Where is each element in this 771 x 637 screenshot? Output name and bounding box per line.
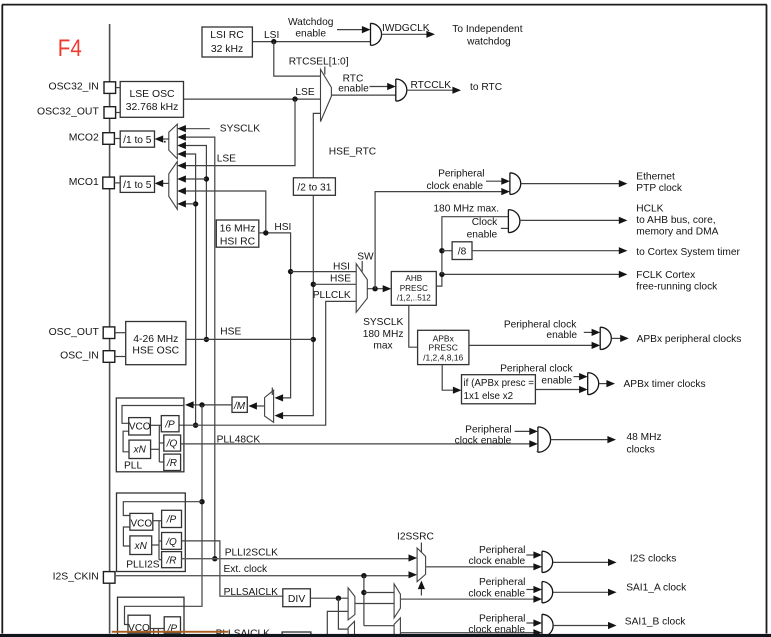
divider /2 to 31 box	[293, 178, 335, 196]
wire RTCSEL mux output to RTC gate	[331, 94, 395, 96]
divider /8 box	[452, 242, 472, 260]
pin MCO1	[103, 177, 115, 189]
mux I2SSRC	[417, 548, 426, 582]
prescaler AHB PRESC box	[391, 272, 436, 306]
divider PLL /P box	[161, 416, 179, 432]
svg-text:OSC_IN: OSC_IN	[60, 351, 99, 362]
wire APBx PRESC down to if box	[442, 365, 455, 391]
svg-text:/1 to 5: /1 to 5	[123, 180, 152, 191]
wire Ext into SAI B mux	[364, 625, 394, 627]
pin I2S_CKIN	[103, 572, 115, 584]
svg-text:LSE: LSE	[217, 154, 236, 165]
wire SAI1_A clock row to gate	[400, 598, 535, 600]
svg-text:180 MHz: 180 MHz	[363, 329, 404, 340]
svg-text:32 kHz: 32 kHz	[211, 44, 243, 55]
wire PLLI2S xN feedback loop	[123, 527, 129, 546]
svg-text:LSE OSC: LSE OSC	[129, 89, 175, 100]
mux SAI1_A pre-select mux	[348, 588, 355, 620]
wire HSI into MCO1 mux	[179, 191, 266, 233]
node PLLCLK tap junction	[193, 423, 198, 428]
svg-text:/P: /P	[164, 419, 175, 430]
wire pin stub MCO2	[114, 138, 120, 140]
svg-text:Peripheral: Peripheral	[438, 168, 484, 179]
svg-text:clock enable: clock enable	[426, 181, 483, 192]
svg-text:VCO: VCO	[129, 422, 151, 433]
pll PLL VCO box	[129, 418, 151, 435]
svg-text:clock enable: clock enable	[468, 589, 525, 600]
wire pin stub OSC_OUT	[115, 332, 126, 334]
svg-text:PTP clock: PTP clock	[636, 183, 683, 194]
pll PLLI2S block outer box	[117, 493, 186, 572]
svg-text:xN: xN	[133, 444, 147, 455]
svg-text:HSE: HSE	[330, 273, 351, 284]
wire SAI premux A output	[355, 603, 394, 605]
svg-text:/1 to 5: /1 to 5	[123, 135, 152, 146]
wire SYSCLK output of SW mux into AHB PRESC	[367, 288, 385, 290]
svg-text:to AHB bus, core,: to AHB bus, core,	[636, 215, 715, 226]
wire /8 output to Cortex system timer	[472, 250, 620, 252]
svg-text:HSI RC: HSI RC	[220, 236, 256, 247]
svg-text:/1,2,4,8,16: /1,2,4,8,16	[423, 352, 463, 362]
svg-text:32.768 kHz: 32.768 kHz	[126, 102, 179, 113]
svg-text:Ext. clock: Ext. clock	[224, 564, 268, 575]
svg-text:I2SSRC: I2SSRC	[397, 531, 434, 542]
artifact dot near MCO2 mux	[164, 141, 166, 143]
gate U_48M clock gate	[538, 427, 551, 452]
pin OSC_IN	[103, 351, 115, 363]
svg-text:To Independent: To Independent	[452, 24, 522, 35]
svg-text:enable: enable	[541, 376, 572, 387]
wire I2SSRC output to I2S gate	[426, 566, 536, 568]
svg-text:PLL48CK: PLL48CK	[217, 434, 261, 445]
gate U_ETH clock gate	[510, 173, 521, 195]
wire SW select stub	[361, 261, 363, 272]
wire PLLSAI internal rail	[150, 628, 164, 630]
pin MCO2	[103, 133, 115, 145]
wire enable arrow into APBx peripheral gate	[584, 331, 594, 333]
svg-text:PLLCLK: PLLCLK	[313, 290, 351, 301]
pll PLLSAI VCO box	[128, 615, 150, 633]
svg-text:HSI: HSI	[333, 261, 350, 272]
svg-text:max: max	[373, 340, 392, 351]
mux PLL source mux	[265, 390, 274, 422]
wire HSE main line	[186, 338, 313, 340]
wire SAI1_A clock output	[553, 591, 610, 593]
wire pin stub MCO1	[114, 182, 120, 184]
wire PLLI2S VCO output rail	[153, 520, 163, 522]
wire HSI from HSI RC box down to PLL source mux	[259, 233, 291, 398]
wire from PLLSAI below into SAI premux	[327, 611, 348, 637]
wire PLLCLK into MCO1 mux	[179, 203, 196, 205]
gate U_I2S clock gate	[542, 551, 553, 572]
svg-text:Peripheral clock: Peripheral clock	[500, 364, 573, 375]
wire HSE vertical from /2 to 31 down to PLL source mux	[276, 195, 313, 415]
gate U_APBT clock gate	[588, 373, 599, 395]
node HSE to SW junction	[311, 282, 316, 287]
mux MCO2 source mux	[169, 124, 178, 159]
wire I2SSRC select stub	[420, 543, 422, 553]
svg-text:OSC_OUT: OSC_OUT	[49, 327, 100, 338]
svg-text:Watchdog: Watchdog	[288, 17, 334, 28]
wire MCO1 mux output arrow	[160, 182, 169, 184]
svg-text:SAI1_A clock: SAI1_A clock	[626, 582, 687, 593]
pll PLL xN box	[129, 440, 151, 458]
svg-text:enable: enable	[467, 229, 498, 240]
wire enable arrow into I2S gate	[526, 554, 534, 556]
pll PLLI2S xN box	[130, 536, 152, 555]
svg-text:/8: /8	[458, 247, 467, 258]
wire enable arrow into SAI1_A gate	[526, 589, 534, 591]
wire into /8 divider	[442, 250, 452, 252]
wire SYSCLK stub into MCO2 mux	[179, 128, 210, 130]
svg-text:Ethernet: Ethernet	[636, 171, 675, 182]
svg-text:enable: enable	[546, 330, 577, 341]
svg-text:Peripheral clock: Peripheral clock	[504, 320, 577, 331]
wire PLLI2SCLK from MCO2 mux down to PLLI2S /R output	[179, 137, 215, 559]
wire LSE branch down to MCO1 mux	[179, 99, 296, 166]
svg-text:clocks: clocks	[627, 445, 655, 456]
node PLLI2SCLK tap junction	[212, 556, 217, 561]
divider DIV box	[283, 589, 311, 607]
gate U_RTC clock gate	[396, 79, 407, 101]
wire enable arrow into 48 MHz gate	[515, 430, 532, 432]
wire HSE into MCO1 mux	[179, 178, 207, 180]
svg-text:/2 to 31: /2 to 31	[297, 183, 331, 194]
svg-text:PRESC: PRESC	[400, 284, 428, 293]
divider /1 to 5 box MCO2	[120, 131, 154, 147]
svg-text:SW: SW	[357, 251, 374, 262]
svg-text:xN: xN	[134, 541, 148, 552]
mux SW system clock mux	[356, 264, 367, 313]
svg-text:PLLI2SCLK: PLLI2SCLK	[225, 547, 278, 558]
wire DIV branch down to SAI B premux	[338, 598, 348, 629]
conditional multiplier box if APBx presc	[462, 375, 536, 404]
gate U_SAIA clock gate	[542, 582, 553, 603]
wire PLL internal input rail	[122, 406, 184, 424]
wire pin stub OSC_IN	[115, 356, 126, 358]
svg-text:RTCSEL[1:0]: RTCSEL[1:0]	[289, 56, 349, 67]
pll PLLSAI block outer box	[118, 597, 185, 637]
pll PLL block outer box	[116, 398, 184, 472]
svg-text:DIV: DIV	[288, 594, 305, 605]
wire into PLLI2S	[185, 501, 202, 503]
node LSE junction	[292, 96, 297, 101]
svg-text:SYSCLK: SYSCLK	[220, 124, 260, 135]
wire SYSCLK up to Ethernet PTP gate	[375, 192, 503, 289]
svg-text:clock enable: clock enable	[455, 435, 512, 446]
svg-text:PLLSAICLK: PLLSAICLK	[224, 587, 279, 598]
svg-text:IWDGCLK: IWDGCLK	[382, 23, 430, 34]
svg-text:I2S_CKIN: I2S_CKIN	[53, 572, 99, 583]
node LSI junction	[271, 39, 276, 44]
pll PLLI2S VCO box	[130, 513, 153, 530]
svg-text:watchdog: watchdog	[466, 37, 511, 48]
wire APBx timer clocks output	[599, 383, 609, 385]
svg-text:HSE: HSE	[220, 327, 241, 338]
divider /1 to 5 box MCO1	[120, 176, 154, 192]
oscillator LSE OSC 32.768 kHz box	[120, 82, 183, 118]
wire Ext clock branch down to SAI muxes	[363, 576, 365, 626]
svg-text:to Cortex System timer: to Cortex System timer	[636, 247, 740, 258]
artifact dot below 48 MHz gate	[537, 451, 539, 453]
wire LSI branch down to RTCSEL mux	[274, 42, 321, 77]
wire RTCCLK output	[407, 89, 454, 91]
svg-text:enable: enable	[338, 84, 369, 95]
wire PLLCLK from PLL /P to SW mux	[179, 301, 356, 425]
svg-text:MCO1: MCO1	[69, 177, 99, 188]
node HSI to SW junction	[288, 269, 293, 274]
svg-text:FCLK Cortex: FCLK Cortex	[636, 270, 695, 281]
wire PLL48CK from PLL /Q to 48 MHz gate	[181, 443, 532, 445]
wire PLL source mux output to /M	[255, 405, 265, 407]
svg-text:if (APBx presc =: if (APBx presc =	[464, 378, 535, 389]
wire APBx PRESC output to APBx peripheral gate	[469, 344, 594, 346]
svg-text:/Q: /Q	[166, 439, 178, 450]
svg-text:/M: /M	[233, 401, 246, 412]
svg-text:clock enable: clock enable	[468, 625, 525, 636]
wire enable arrow into Ethernet gate	[486, 180, 503, 182]
wire 48 MHz clocks output	[551, 439, 610, 441]
svg-text:HSE_RTC: HSE_RTC	[329, 147, 376, 158]
wire HCLK output	[520, 219, 620, 221]
mux SAI1_A source mux	[394, 584, 400, 618]
wire PLL input distribution down to PLLI2S and PLLSAI	[125, 405, 203, 625]
svg-text:HSE OSC: HSE OSC	[132, 346, 179, 357]
mux MCO1 source mux	[169, 162, 178, 210]
wire enable arrow into SAI1_B gate	[526, 622, 534, 624]
svg-text:F4: F4	[58, 35, 82, 62]
svg-text:16 MHz: 16 MHz	[220, 224, 256, 235]
svg-text:/Q: /Q	[165, 537, 177, 548]
wire AHB PRESC output jog	[436, 274, 442, 286]
wire enable arrow into HCLK gate	[501, 227, 509, 229]
divider PLL /R box	[164, 454, 181, 470]
divider PLLI2S /R box	[162, 552, 182, 568]
svg-text:1x1 else x2: 1x1 else x2	[464, 391, 514, 402]
svg-text:180 MHz max.: 180 MHz max.	[433, 203, 499, 214]
wire RTCSEL select stub	[324, 67, 326, 75]
wire pin stub OSC32_OUT	[116, 112, 121, 114]
svg-text:VCO: VCO	[130, 518, 152, 529]
divider /M box	[232, 397, 247, 412]
oscillator 16 MHz HSI RC box	[216, 220, 258, 247]
chip boundary line	[109, 24, 111, 634]
svg-text:PLLI2S: PLLI2S	[126, 560, 160, 571]
pin OSC32_IN	[104, 82, 116, 94]
svg-text:PLL: PLL	[124, 461, 142, 472]
gate U_HCLK clock gate	[508, 210, 519, 233]
wire enable arrow into APBx timer gate	[574, 376, 581, 378]
wire PLL VCO output rail	[151, 424, 162, 426]
svg-text:LSI: LSI	[264, 30, 279, 41]
node SYSCLK junction	[372, 286, 377, 291]
svg-text:to RTC: to RTC	[470, 82, 502, 93]
node HSI junction at box	[263, 230, 268, 235]
mux RTCSEL	[321, 69, 332, 121]
wire I2S clocks output	[553, 561, 610, 563]
divider PLLSAI /P box	[164, 617, 180, 633]
svg-text:OSC32_OUT: OSC32_OUT	[37, 107, 99, 118]
wire PLLI2S internal input rail	[123, 502, 185, 516]
wire HSE from MCO2 mux down to HSE line	[179, 146, 207, 340]
wire PLL xN feedback loop	[123, 431, 129, 452]
node Ext branch junction	[361, 590, 366, 595]
wire DIV output to SAI muxes	[310, 597, 348, 599]
wire PLL source mux select stub	[271, 388, 273, 396]
wire PLLCLK from MCO2 mux down to PLL /P output	[179, 154, 196, 425]
node HSE line end junction	[311, 337, 316, 342]
svg-text:HSI: HSI	[274, 222, 291, 233]
svg-text:/1,2,..512: /1,2,..512	[397, 294, 432, 303]
node HSE line tap junction	[204, 337, 209, 342]
wire watchdog enable into IWDG gate	[337, 29, 364, 31]
wire APBx peripheral clocks output	[612, 337, 622, 339]
divider second DIV box bottom	[282, 632, 311, 637]
svg-text:HCLK: HCLK	[636, 204, 663, 215]
svg-text:memory and DMA: memory and DMA	[636, 227, 718, 238]
wire FCLK Cortex row	[442, 273, 620, 275]
svg-text:I2S clocks: I2S clocks	[630, 553, 676, 564]
pin OSC32_OUT	[104, 107, 116, 119]
wire RTC enable arrow	[370, 86, 390, 88]
wire PLLI2SCLK from PLLI2S /R to I2SSRC mux	[182, 558, 411, 560]
wire HSE into SW mux	[313, 283, 356, 285]
svg-text:enable: enable	[295, 29, 326, 40]
wire /M output to PLL	[190, 404, 232, 406]
svg-text:OSC32_IN: OSC32_IN	[49, 82, 99, 93]
wire AHB PRESC down to APBx PRESC	[409, 305, 418, 347]
node PLLI2S input junction	[199, 499, 204, 504]
pin OSC_OUT	[103, 327, 115, 339]
svg-text:Peripheral: Peripheral	[465, 425, 511, 436]
wire pin stub OSC32_IN	[116, 87, 121, 89]
svg-text:Peripheral: Peripheral	[479, 545, 525, 556]
node PLLCLK at MCO1 junction	[193, 201, 198, 206]
svg-text:free-running clock: free-running clock	[636, 282, 718, 293]
node HSE at MCO1 junction	[204, 176, 209, 181]
svg-text:AHB: AHB	[405, 274, 422, 283]
svg-text:clock enable: clock enable	[469, 556, 526, 567]
svg-text:SYSCLK: SYSCLK	[363, 317, 403, 328]
divider PLLI2S /P box	[162, 510, 182, 527]
gate U_SAIB clock gate	[542, 614, 553, 636]
divider PLLI2S /Q box	[162, 533, 182, 550]
wire if box output to APBx timer gate	[535, 389, 581, 391]
mux SAI1_B source mux	[394, 618, 400, 637]
svg-text:SAI1_B clock: SAI1_B clock	[625, 616, 686, 627]
node PLL input distribution junction	[199, 402, 204, 407]
wire LSI from LSI RC to IWDG gate	[252, 41, 370, 43]
prescaler APBx PRESC box	[418, 330, 469, 364]
svg-text:PRESC: PRESC	[429, 343, 458, 353]
wire IWDGCLK output	[382, 33, 429, 35]
svg-text:Peripheral: Peripheral	[479, 614, 525, 625]
svg-text:48 MHz: 48 MHz	[627, 432, 662, 443]
wire HCLK vertical up to HCLK gate	[442, 217, 509, 275]
svg-text:Peripheral: Peripheral	[479, 577, 525, 588]
wire SAI1_B clock row to gate	[400, 632, 535, 634]
node DIV output junction	[336, 596, 341, 601]
gate U_APBP clock gate	[600, 327, 611, 349]
node Ext clock tap junction	[361, 573, 366, 578]
svg-text:Clock: Clock	[472, 217, 498, 228]
wire I2SSRC bottom input stub with up arrow	[420, 586, 422, 596]
divider PLL /Q box	[164, 435, 181, 451]
wire LSE from LSE OSC to RTCSEL mux	[184, 98, 321, 100]
svg-text:/R: /R	[166, 556, 177, 567]
wire Ext into SAI A mux	[364, 592, 394, 594]
wire HSI into SW mux	[291, 271, 357, 273]
oscillator 4-26 MHz HSE OSC box	[126, 322, 186, 365]
svg-text:RTCCLK: RTCCLK	[411, 80, 452, 91]
svg-text:LSI RC: LSI RC	[210, 30, 244, 41]
gate U_IWDG clock gate	[371, 23, 382, 45]
svg-text:/R: /R	[166, 458, 177, 469]
bottom orange rule	[112, 631, 229, 633]
wire PLLI2S /Q output down to DIV	[182, 541, 283, 596]
svg-text:LSE: LSE	[295, 87, 314, 98]
oscillator LSI RC 32 kHz box	[202, 27, 252, 57]
mux SAI1_B pre-select mux	[348, 621, 354, 637]
svg-text:APBx timer clocks: APBx timer clocks	[624, 379, 706, 390]
wire Ext. clock from I2S_CKIN to I2SSRC mux	[115, 575, 411, 577]
wire Ethernet PTP clock output	[521, 183, 620, 185]
node /8 tap junction	[439, 248, 444, 253]
svg-text:MCO2: MCO2	[69, 133, 99, 144]
svg-text:4-26 MHz: 4-26 MHz	[133, 334, 178, 345]
node FCLK junction	[439, 272, 444, 277]
wire MCO2 mux output arrow	[160, 138, 169, 140]
wire SAI1_B clock output	[553, 625, 610, 627]
svg-text:/P: /P	[166, 515, 177, 526]
svg-text:APBx peripheral clocks: APBx peripheral clocks	[637, 334, 742, 345]
wire HSE_RTC into RTCSEL mux	[313, 113, 320, 177]
